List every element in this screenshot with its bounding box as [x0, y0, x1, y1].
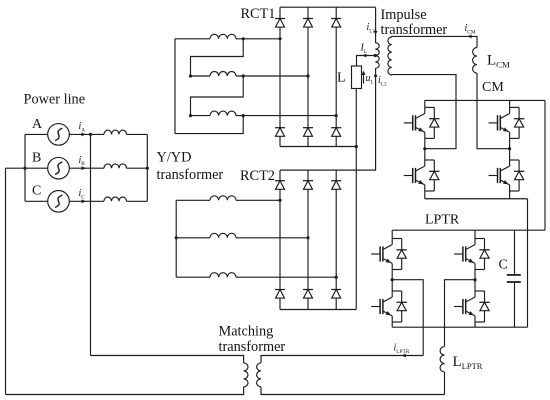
- capacitor C: [507, 275, 521, 282]
- wire RCT1 leg2: [307, 7, 309, 146]
- AC source phase C: [48, 191, 70, 213]
- wire stub from left rail to far-left drop: [6, 167, 26, 169]
- svg-text:B: B: [32, 151, 41, 166]
- junction RCT1 leg1 phase tap: [278, 37, 281, 40]
- junction RCT2 leg2 phase tap: [306, 236, 309, 239]
- junction RCT2 leg1 phase tap: [278, 199, 281, 202]
- wire LPTR right mid to L_LPTR: [445, 280, 476, 347]
- star winding 1: [210, 196, 236, 201]
- wire LPTR top bus: [392, 229, 545, 231]
- wire phase C from source to transformer: [69, 200, 104, 202]
- label LPTR: [425, 213, 460, 228]
- wire L_CM down to CM right-leg midpoint: [477, 73, 510, 149]
- wire far-left vertical down to matching transformer: [5, 168, 7, 394]
- inductor L_CM: [473, 48, 477, 74]
- junction RCT1 leg3 phase tap: [335, 114, 338, 117]
- diode RCT1 lower leg2: [303, 128, 313, 137]
- wire star row1 left: [176, 199, 210, 201]
- wire CM bottom drop to LPTR bottom bus: [527, 199, 529, 327]
- star winding 3: [210, 273, 236, 278]
- svg-text:L: L: [337, 71, 346, 86]
- wire LPTR right leg emitter: [474, 322, 476, 327]
- transistor LPTR left lower IGBT: [371, 291, 407, 322]
- wire delta link row1-row2: [191, 39, 244, 76]
- junction delta row3 tap: [242, 114, 245, 117]
- wire delta row1 left: [175, 38, 210, 40]
- junction RCT2 leg3 phase tap: [335, 276, 338, 279]
- label current iB: [79, 155, 86, 167]
- svg-text:RCT2: RCT2: [240, 168, 275, 184]
- wire CM top bus: [425, 99, 545, 101]
- wire impulse secondary top to L_CM: [392, 36, 477, 47]
- diode RCT1 lower leg1: [275, 128, 285, 137]
- wire capacitor top lead: [514, 230, 516, 275]
- svg-text:Matching: Matching: [219, 323, 274, 339]
- junction impulse primary center tap: [374, 54, 377, 57]
- diode RCT2 upper leg1: [275, 181, 285, 190]
- svg-text:A: A: [32, 117, 43, 132]
- wire LPTR bottom bus: [392, 326, 527, 328]
- label phase C: [32, 184, 41, 199]
- voltage arrow u_L: [362, 71, 366, 84]
- matching transformer secondary winding: [257, 363, 261, 387]
- wire LPTR left leg mid section: [391, 270, 393, 292]
- matching transformer primary winding: [244, 363, 248, 387]
- current arrow i_L1: [374, 31, 378, 35]
- wire CM right leg mid section: [509, 138, 511, 160]
- label transformer (impulse): [381, 22, 448, 38]
- wire phase B from source to transformer: [69, 167, 104, 169]
- label phase A: [32, 117, 43, 132]
- label current I_L: [360, 43, 368, 55]
- svg-text:C: C: [32, 184, 41, 199]
- diode RCT1 lower leg3: [331, 128, 341, 137]
- label current i_LPTR: [394, 343, 410, 355]
- junction CM right-leg midpoint: [508, 147, 511, 150]
- wire matching primary top: [91, 356, 244, 363]
- impulse transformer primary winding upper half: [375, 43, 379, 56]
- current arrow iB: [82, 166, 86, 170]
- svg-text:transformer: transformer: [157, 167, 224, 183]
- star winding 2: [210, 233, 236, 237]
- wire CM left leg mid section: [424, 138, 426, 160]
- svg-text:C: C: [499, 258, 508, 273]
- wire i_L1 from RCT1 top bus to impulse primary: [375, 7, 377, 43]
- transistor CM right upper IGBT: [489, 107, 525, 138]
- wire RCT2 leg2: [307, 170, 309, 309]
- AC source phase B: [48, 157, 70, 179]
- label current i_L1: [367, 22, 376, 34]
- wire delta link row2-row3: [191, 76, 244, 116]
- junction LPTR left-leg midpoint: [391, 278, 394, 281]
- current arrow I_L: [362, 54, 366, 58]
- wire delta row1 to RCT1 leg1: [236, 38, 280, 40]
- label current iC: [79, 188, 86, 200]
- resistor L: [352, 66, 362, 89]
- svg-text:CM: CM: [482, 80, 504, 95]
- label L_LPTR: [453, 354, 483, 371]
- diode RCT2 upper leg2: [303, 181, 313, 190]
- wire delta bottom link: [175, 116, 243, 134]
- label Y/YD: [157, 150, 192, 166]
- wire resistor to negative buses: [355, 89, 357, 147]
- wire delta row2 to RCT1 leg2: [236, 75, 308, 77]
- junction delta row3 start: [189, 114, 192, 117]
- wire L branch down to RCT2 bottom bus: [355, 147, 357, 310]
- wire RCT1 leg3: [335, 7, 337, 146]
- wire L_LPTR to bottom wire: [444, 372, 446, 395]
- wire LPTR left mid to i_LPTR drop: [392, 280, 423, 356]
- wire CM right leg emitter: [509, 191, 511, 199]
- wire LPTR right leg collector: [474, 230, 476, 238]
- wire phase A from source to transformer: [69, 133, 104, 135]
- junction CM left-leg midpoint: [423, 147, 426, 150]
- wire RCT2 top bus: [280, 169, 376, 171]
- junction delta row2 start: [189, 74, 192, 77]
- transistor LPTR left upper IGBT: [371, 239, 407, 270]
- AC source phase A: [48, 124, 70, 146]
- wire delta row3 left: [191, 115, 211, 117]
- wire RCT2 star vertical: [175, 200, 177, 277]
- wire impulse secondary bottom to CM left-leg midpoint: [392, 75, 456, 149]
- wire matching secondary top / i_LPTR: [261, 356, 423, 363]
- delta winding 1: [210, 34, 236, 39]
- diode RCT2 upper leg3: [331, 181, 341, 190]
- wire RCT2 leg1: [279, 170, 281, 309]
- junction LPTR right-leg midpoint: [473, 278, 476, 281]
- diode RCT2 lower leg2: [303, 290, 313, 299]
- Y/YD primary winding phase C: [104, 197, 127, 201]
- svg-text:LPTR: LPTR: [425, 213, 460, 228]
- label resistor L: [337, 71, 346, 86]
- label Power line: [24, 92, 86, 108]
- label L_CM: [487, 53, 510, 70]
- diode RCT2 lower leg3: [331, 290, 341, 299]
- wire matching primary bottom: [6, 387, 244, 395]
- transistor CM left lower IGBT: [404, 160, 440, 191]
- junction delta row2 tap: [242, 74, 245, 77]
- diode RCT1 upper leg3: [331, 19, 341, 28]
- wire capacitor bottom lead: [514, 282, 516, 327]
- wire phase C from rail to source: [25, 200, 48, 202]
- wire delta row2 left: [191, 75, 211, 77]
- label C: [499, 258, 508, 273]
- label current i_L2: [378, 75, 387, 87]
- wire star row1 to RCT2 leg1: [236, 199, 280, 201]
- impulse transformer primary winding lower half: [375, 56, 379, 69]
- current arrow i_LPTR: [402, 354, 406, 358]
- label current i_CM: [465, 23, 476, 35]
- transistor LPTR right upper IGBT: [454, 239, 490, 270]
- wire CM right leg collector: [509, 100, 511, 107]
- wire i_L2 impulse primary bottom down to RCT2 top bus: [280, 68, 376, 170]
- diode RCT2 lower leg1: [275, 290, 285, 299]
- label Matching: [219, 323, 274, 339]
- transistor CM right lower IGBT: [489, 160, 525, 191]
- label Impulse: [381, 7, 427, 23]
- inductor L_LPTR: [440, 347, 444, 372]
- current arrow iA: [82, 133, 86, 137]
- wire phase A winding to star point: [127, 133, 148, 135]
- wire CM left leg collector: [424, 100, 426, 107]
- wire RCT1 top bus: [280, 6, 376, 8]
- wire RCT2 bottom bus: [280, 309, 356, 311]
- junction star row2: [175, 236, 178, 239]
- transistor LPTR right lower IGBT: [454, 291, 490, 322]
- label RCT2: [240, 168, 275, 184]
- wire matching secondary bottom: [261, 387, 445, 395]
- label voltage u_L: [366, 73, 374, 85]
- wire star row3 left: [176, 276, 210, 278]
- current arrow i_L2: [374, 73, 378, 77]
- svg-text:Power line: Power line: [24, 92, 86, 108]
- wire Y primary star vertical: [146, 134, 148, 201]
- svg-text:RCT1: RCT1: [241, 6, 276, 22]
- wire CM left leg emitter: [424, 191, 426, 199]
- wire star row2 left: [176, 237, 210, 239]
- wire delta row3 to RCT1 leg3: [236, 115, 336, 117]
- wire vertical from phase A down to matching transformer: [90, 134, 92, 355]
- label RCT1: [241, 6, 276, 22]
- delta winding 3: [210, 111, 236, 115]
- wire left rail joining sources: [24, 134, 26, 201]
- label current iA: [79, 121, 86, 133]
- wire phase A from rail to source: [25, 133, 48, 135]
- wire LPTR left leg emitter: [391, 322, 393, 327]
- wire star row3 to RCT2 leg3: [236, 276, 336, 278]
- diode RCT1 upper leg2: [303, 19, 313, 28]
- wire phase B from rail to source: [25, 167, 48, 169]
- svg-text:transformer: transformer: [381, 22, 448, 38]
- junction star point phase B: [146, 167, 149, 170]
- svg-text:transformer: transformer: [219, 339, 286, 355]
- delta winding 2: [210, 72, 236, 77]
- label CM: [482, 80, 504, 95]
- Y/YD primary winding phase B: [104, 164, 127, 168]
- Y/YD primary winding phase A: [104, 130, 127, 134]
- svg-text:Y/YD: Y/YD: [157, 150, 192, 166]
- transistor CM left upper IGBT: [404, 107, 440, 138]
- wire phase B winding to star point: [127, 167, 148, 169]
- wire RCT2 leg3: [335, 170, 337, 309]
- impulse transformer secondary winding: [388, 37, 392, 75]
- diode RCT1 upper leg1: [275, 19, 285, 28]
- wire LPTR right leg mid section: [474, 270, 476, 292]
- svg-text:Impulse: Impulse: [381, 7, 427, 23]
- junction delta row1 tap: [242, 37, 245, 40]
- wire LPTR left leg collector: [391, 230, 393, 238]
- wire RCT1 bottom bus: [280, 146, 356, 148]
- wire CM bottom bus: [425, 198, 528, 200]
- wire phase C winding to star point: [127, 200, 148, 202]
- label phase B: [32, 151, 41, 166]
- wire CM right vertical to LPTR top bus: [544, 100, 546, 230]
- label transformer (Y/YD): [157, 167, 224, 183]
- junction L branch with RCT1 bottom bus: [355, 145, 358, 148]
- current arrow i_CM: [467, 35, 471, 39]
- wire star row2 to RCT2 leg2: [236, 237, 308, 239]
- label transformer (matching): [219, 339, 286, 355]
- wire center-tap to resistor: [357, 56, 376, 67]
- current arrow iC: [82, 199, 86, 203]
- wire delta outer-left vertical: [174, 39, 176, 134]
- wire RCT1 leg1: [279, 7, 281, 146]
- junction on left rail at phase B: [23, 167, 26, 170]
- junction phase A tap: [89, 133, 92, 136]
- junction RCT1 leg2 phase tap: [306, 74, 309, 77]
